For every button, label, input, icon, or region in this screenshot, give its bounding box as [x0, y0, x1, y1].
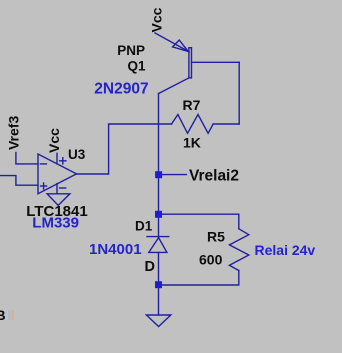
net label Vref3, rotated [6, 116, 22, 150]
transistor Q1 emitter arrow (PNP, open) [173, 40, 189, 51]
wire: Vcc to Q1 emitter (diagonal) [155, 33, 189, 52]
op-amp U3 V+ plus marker [60, 158, 66, 164]
svg-text:Relai 24v: Relai 24v [255, 242, 316, 258]
op-amp U3 V- minus marker [60, 187, 66, 189]
svg-text:1N4001: 1N4001 [89, 241, 142, 258]
ground symbol [146, 315, 170, 327]
junction: diode/R5 top node [155, 211, 162, 218]
resistor R5 zigzag [229, 229, 248, 271]
transistor Q1 base bar [189, 48, 192, 78]
junction: Vrelai2 node [155, 171, 162, 178]
svg-text:Q1: Q1 [128, 58, 147, 73]
power Vcc net label (Q1 emitter), rotated [149, 7, 165, 32]
svg-text:2N2907: 2N2907 [94, 81, 148, 98]
op-amp U3 inverting input marker [40, 163, 46, 165]
cursor mark tan [12, 310, 15, 320]
svg-text:Vref3: Vref3 [6, 116, 22, 150]
svg-text:U3: U3 [68, 147, 86, 162]
svg-text:PNP: PNP [117, 43, 145, 58]
wire: top node to resistor R5 [159, 214, 239, 229]
diode D1 triangle (anode) [149, 238, 167, 253]
wire: Q1 collector main vertical down to diode D1 [158, 94, 160, 237]
wire: Vrelai2 label stub [159, 174, 187, 176]
svg-text:600: 600 [199, 252, 223, 268]
resistor R7 zigzag [172, 115, 214, 134]
wire: Vref3 to inverting input [16, 152, 38, 164]
svg-text:LM339: LM339 [32, 215, 79, 232]
wire: R7 right lead [213, 123, 239, 125]
svg-text:1K: 1K [183, 134, 201, 150]
wire: R5 bottom to ground rail [159, 271, 239, 286]
wire: op-amp output to R7 left [77, 124, 172, 174]
op-amp U3 triangle [38, 154, 77, 194]
svg-text:D: D [145, 259, 155, 275]
transistor Q1 base lead [192, 61, 240, 63]
svg-text:D1: D1 [135, 219, 153, 234]
op-amp U3 V- supply pin stub [56, 184, 58, 194]
transistor Q1 collector lead (diagonal) [159, 78, 189, 94]
wire: Q1 base lead down to R7 right [238, 62, 240, 124]
junction: ground rail node [155, 281, 162, 288]
wire: diode D1 anode down through ground node [158, 252, 160, 315]
diode D1 cathode bar [147, 236, 169, 238]
svg-text:Vcc: Vcc [149, 7, 165, 32]
svg-text:Vrelai2: Vrelai2 [189, 167, 239, 184]
power Vcc net label (op-amp V+), rotated [46, 128, 62, 153]
svg-text:R5: R5 [207, 228, 225, 244]
op-amp U3 non-inverting input marker [41, 183, 47, 189]
cursor mark light blue [8, 310, 11, 320]
svg-text:R7: R7 [183, 97, 201, 113]
wire: left edge to non-inverting input [0, 176, 38, 186]
op-amp U3 V+ supply pin stub [56, 153, 58, 164]
svg-text:B: B [0, 307, 6, 323]
svg-text:Vcc: Vcc [46, 128, 62, 153]
ground flag on op-amp V- supply [47, 194, 70, 206]
